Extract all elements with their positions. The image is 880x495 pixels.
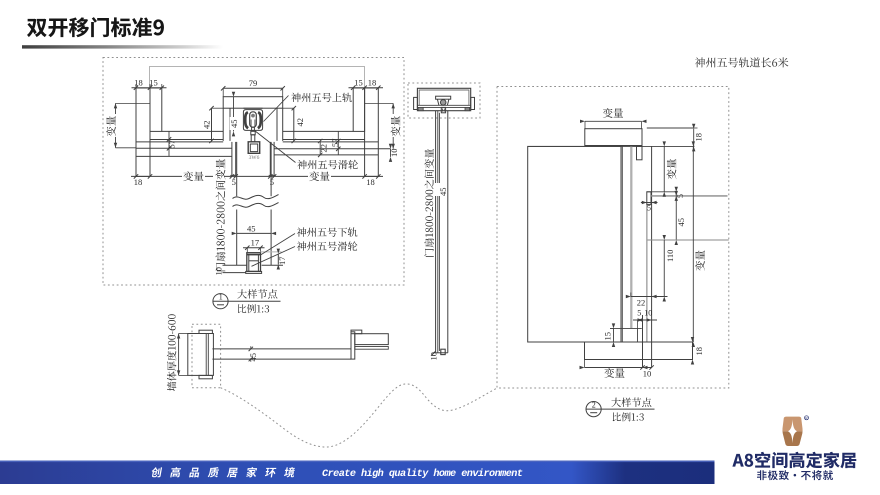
label pulley lower (297, 241, 358, 250)
dim 45 door thickness (plan) (248, 350, 258, 359)
dim 5 horizontal (641, 202, 658, 204)
page title (27, 17, 164, 37)
bottom dim chain (585, 367, 652, 369)
dim 10 right overhang (390, 149, 392, 157)
dim 45 (675, 196, 677, 240)
svg-text:57: 57 (167, 140, 177, 149)
door attachment bracket (251, 135, 255, 142)
centre door panel lower part (236, 210, 238, 266)
svg-text:18: 18 (694, 133, 704, 142)
top dim bianliang (585, 120, 642, 122)
dim 10 bottom clearance (431, 351, 435, 355)
svg-text:17: 17 (277, 257, 287, 266)
footer blue bar (0, 461, 715, 485)
dim 42 left (211, 108, 213, 141)
section note 2 (611, 398, 651, 407)
svg-text:45: 45 (676, 218, 686, 227)
left pocket board lines (136, 147, 232, 149)
meeting jamb (351, 332, 355, 359)
right pocket board lines (274, 148, 390, 150)
middle detail dashed box (408, 83, 480, 118)
svg-text:5: 5 (270, 177, 274, 187)
rotated text door 1800-2800 variable (middle) (424, 149, 433, 257)
hanger plate (441, 107, 445, 112)
svg-text:22: 22 (319, 144, 329, 153)
right detail dashed boundary box (497, 87, 729, 389)
track housing (417, 88, 470, 110)
logo wordmark (732, 452, 856, 469)
header rail (585, 129, 642, 146)
svg-text:10: 10 (429, 352, 439, 361)
dim text bianliang (a) rotated (666, 158, 677, 180)
vertical track lines (630, 146, 632, 328)
stopper block (647, 192, 651, 205)
upper rail profile (shenzhou no.5 top track) (243, 110, 262, 131)
svg-text:Create high quality home envir: Create high quality home environment (322, 468, 523, 480)
left detail dashed boundary box (103, 58, 404, 286)
logo mark (two-tone vase) (781, 416, 809, 448)
side tabs (414, 97, 418, 109)
door edge trims below ceiling (231, 142, 233, 176)
label top rail (291, 93, 352, 102)
dim text bianliang right bottom (308, 171, 331, 182)
svg-text:5: 5 (637, 309, 641, 318)
section note 1 (237, 289, 277, 298)
bottom track (shenzhou no.5 bottom rail) (247, 253, 261, 272)
svg-text:15: 15 (354, 77, 363, 87)
dim text bianliang right vertical (390, 114, 401, 137)
wall section (188, 334, 214, 376)
centre door panel upper part (236, 142, 238, 196)
rotated text wall thickness 100-600 (167, 314, 177, 391)
rotated text door 1800-2800 variable (left) (213, 160, 224, 260)
roller wheel (440, 100, 446, 106)
dim 57 left (168, 131, 170, 156)
svg-text:18: 18 (366, 177, 375, 187)
bottom sill (585, 342, 693, 360)
svg-text:110: 110 (665, 250, 675, 262)
svg-text:18: 18 (368, 77, 377, 87)
door leaf 1 (plan) (212, 348, 351, 350)
dim text 45 centre (230, 117, 238, 130)
svg-text:15: 15 (149, 77, 158, 87)
dim 79 over top plate (223, 87, 283, 89)
svg-text:57: 57 (330, 139, 340, 148)
leader: pulley label (lower) (252, 247, 296, 267)
dim 18 sill height (692, 342, 694, 360)
door leaf rectangle (528, 146, 621, 342)
dim 18 header height (693, 129, 695, 147)
tall dim bianliang (692, 146, 694, 342)
note: track length 6m (695, 57, 789, 67)
hanging notch (637, 146, 643, 159)
section symbol 1 (213, 294, 228, 309)
dim 110 (663, 240, 665, 297)
svg-text:17: 17 (251, 238, 260, 248)
svg-text:10: 10 (643, 369, 652, 379)
svg-text:45: 45 (438, 188, 448, 197)
left leg under plate (222, 108, 224, 141)
floor guide block (441, 349, 445, 354)
left bianliang vertical dim (115, 103, 117, 147)
break (wavy) lines (233, 195, 279, 200)
ceiling lines left of track (162, 130, 223, 132)
dim 22 (631, 296, 668, 298)
svg-text:10: 10 (389, 149, 399, 158)
svg-text:45: 45 (229, 120, 239, 129)
leader: pulley label (upper) (255, 131, 296, 163)
ceiling line right (647, 127, 694, 129)
right bianliang vertical dim (392, 103, 394, 148)
svg-text:18: 18 (134, 177, 143, 187)
svg-text:5: 5 (232, 177, 236, 187)
leader: bottom rail label (261, 234, 295, 255)
roller (shenzhou no.5 pulley) (250, 112, 257, 127)
label pulley upper (297, 160, 358, 169)
dim 45 (door width) (237, 232, 271, 234)
floor guide profile (610, 327, 642, 329)
svg-text:1: 1 (219, 293, 223, 302)
svg-text:42: 42 (295, 118, 305, 127)
left filler strip (150, 88, 162, 131)
svg-text:3W6: 3W6 (249, 155, 260, 161)
dim 17 (floor track width) (243, 247, 265, 249)
ceiling cavity light outline (150, 67, 365, 89)
svg-text:22: 22 (637, 298, 646, 308)
logo tagline (757, 470, 833, 480)
dim 57 / 22 right (337, 131, 339, 155)
dim 15 (613, 328, 615, 342)
top plate of upper track (79 wide) (223, 97, 283, 109)
bottom dimension chain (131, 175, 383, 177)
track base plate (246, 271, 262, 273)
dim text bianliang left bottom (182, 171, 205, 182)
extension line y240 (648, 239, 729, 241)
dim 17 track height (277, 254, 279, 265)
label bottom rail (297, 227, 358, 236)
door leaf 2 (plan) (355, 334, 389, 345)
dim 5 and 10 (633, 319, 657, 321)
svg-text:79: 79 (249, 78, 258, 88)
svg-text:5: 5 (647, 204, 651, 213)
footer slogan chinese (151, 467, 163, 477)
svg-text:42: 42 (202, 121, 212, 130)
title underline gradient bar (22, 45, 223, 48)
plan view dashed box (192, 324, 221, 387)
dim 5 vertical (675, 192, 677, 196)
dim line 18/15 top-left (132, 87, 167, 89)
svg-text:18: 18 (134, 77, 143, 87)
dim text 45 middle door (435, 183, 444, 196)
dim text bianliang bottom (604, 368, 624, 378)
leader: top rail label (264, 96, 289, 122)
dim 42 right (293, 108, 295, 141)
dim line 15/18 top-right (349, 87, 384, 89)
right filler strip (353, 88, 364, 131)
dim text bianliang tall rotated (694, 250, 705, 272)
svg-text:18: 18 (694, 347, 704, 356)
dim text bianliang left vertical (106, 114, 117, 137)
housing end blocks (419, 107, 424, 110)
wall thickness dim (178, 334, 180, 376)
freeform dashed boundary curve (221, 384, 497, 447)
dim 45 centre (track assembly height) (233, 97, 235, 132)
svg-text:5: 5 (676, 194, 685, 198)
right leg under plate (276, 108, 278, 141)
svg-text:45: 45 (247, 223, 256, 233)
jamb tabs (199, 330, 212, 333)
left wall column (136, 88, 150, 176)
ceiling lines right of track (283, 130, 354, 132)
door leaf (elevation) (435, 111, 437, 353)
floor lines (223, 264, 247, 266)
svg-text:10: 10 (644, 309, 652, 318)
dim bianliang (a) (663, 146, 665, 191)
svg-text:15: 15 (603, 332, 613, 341)
hanger bolt (252, 127, 255, 131)
section symbol 2 (586, 402, 601, 417)
right wall column (365, 88, 379, 176)
dim text bianliang right-top (603, 108, 623, 118)
svg-text:2: 2 (592, 401, 596, 410)
trolley bracket (436, 96, 451, 99)
